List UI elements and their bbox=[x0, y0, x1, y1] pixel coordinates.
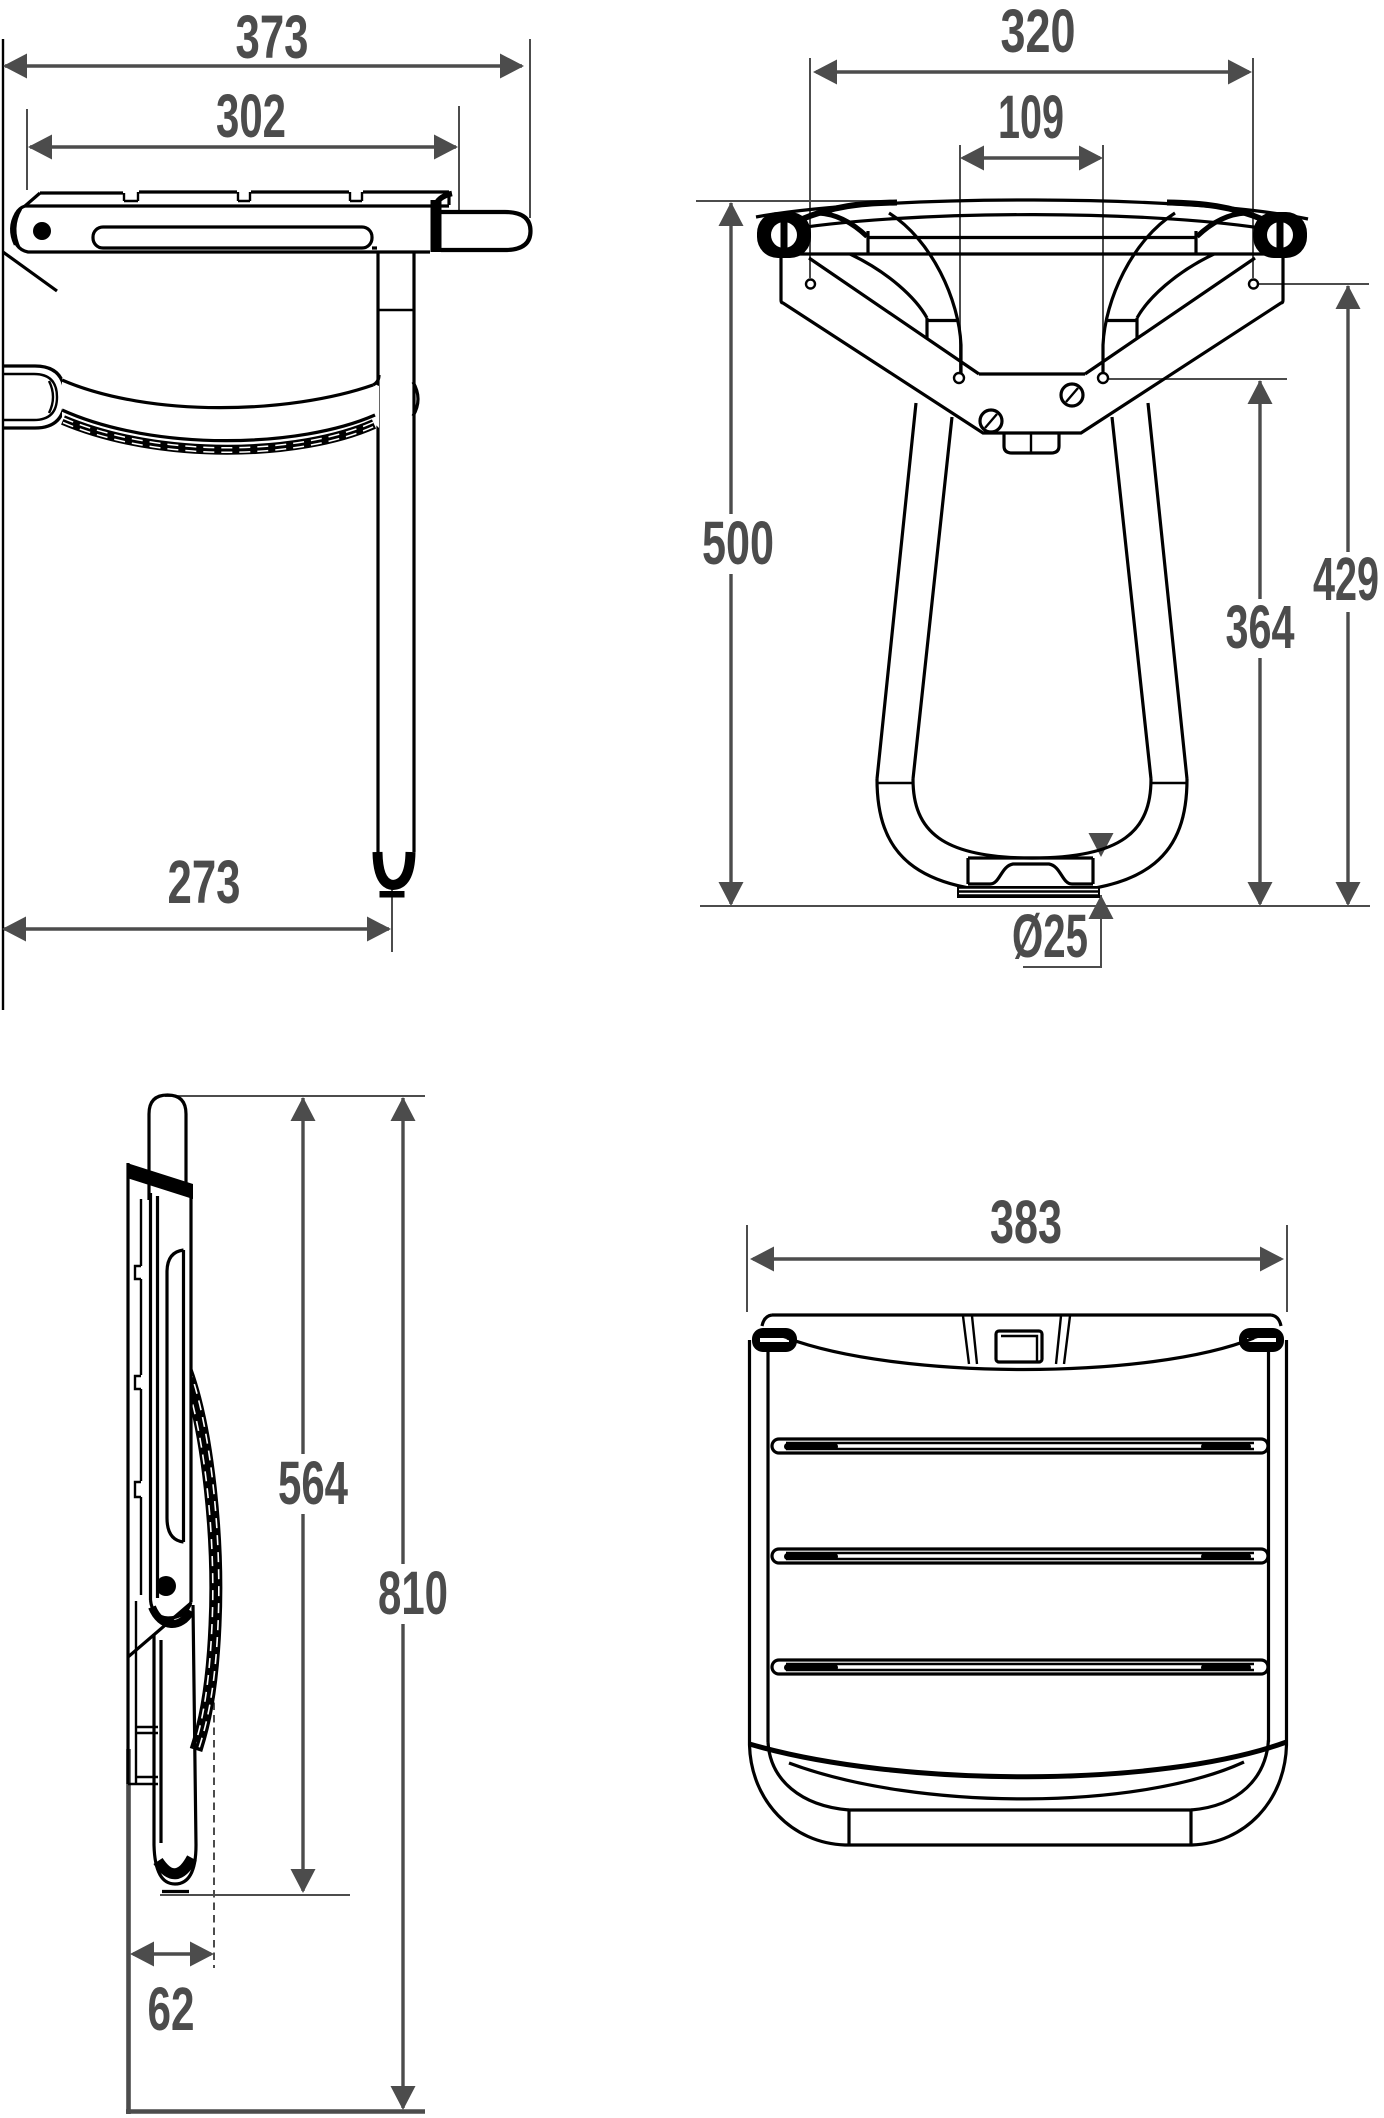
svg-text:500: 500 bbox=[702, 509, 774, 577]
svg-text:273: 273 bbox=[168, 848, 241, 916]
svg-text:62: 62 bbox=[148, 1975, 195, 2043]
svg-text:373: 373 bbox=[236, 3, 309, 71]
svg-text:Ø25: Ø25 bbox=[1012, 902, 1088, 970]
svg-text:383: 383 bbox=[990, 1188, 1062, 1256]
svg-text:564: 564 bbox=[278, 1449, 348, 1517]
svg-text:364: 364 bbox=[1226, 593, 1295, 661]
svg-text:320: 320 bbox=[1001, 0, 1076, 65]
svg-text:810: 810 bbox=[378, 1559, 448, 1627]
svg-text:302: 302 bbox=[216, 82, 286, 150]
svg-text:109: 109 bbox=[998, 83, 1064, 151]
svg-text:429: 429 bbox=[1313, 545, 1379, 613]
